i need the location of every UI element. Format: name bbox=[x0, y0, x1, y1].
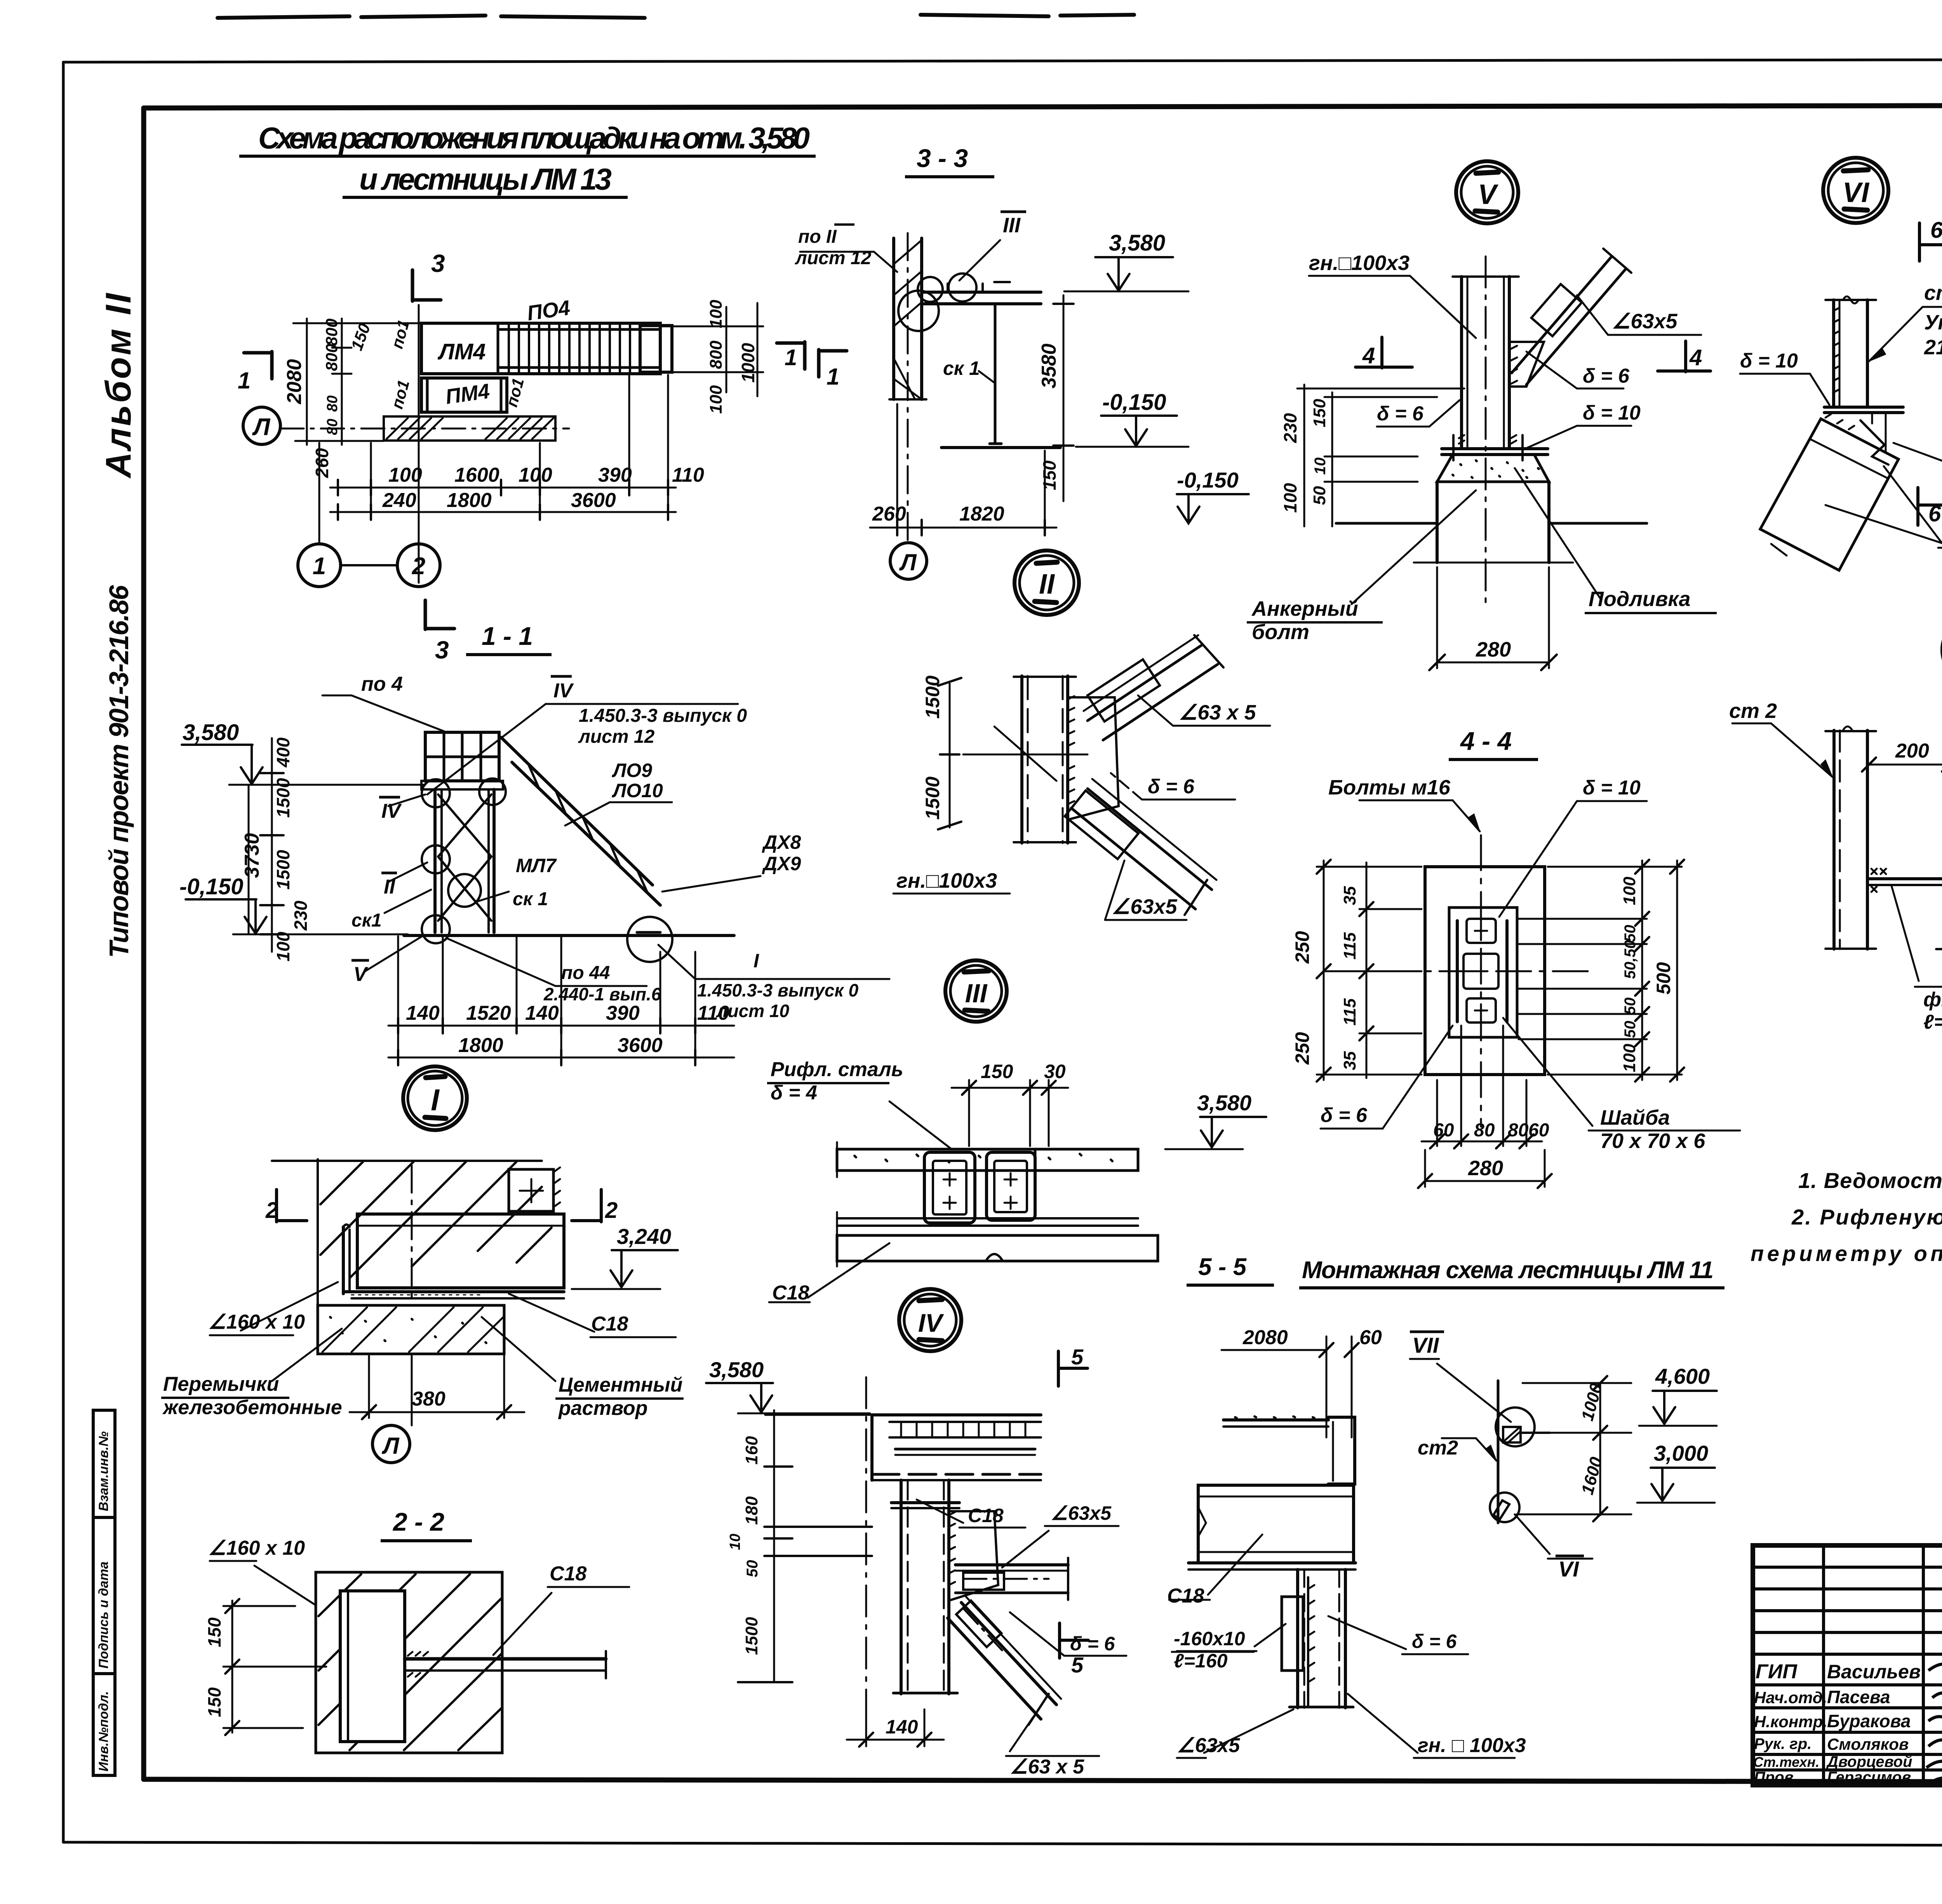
gusset IV bbox=[949, 1511, 998, 1601]
svg-text:Смоляков: Смоляков bbox=[1827, 1735, 1909, 1753]
svg-text:Шайба: Шайба bbox=[1600, 1106, 1670, 1129]
podlivka leader bbox=[1515, 468, 1600, 598]
channel boxes inside bbox=[1467, 919, 1496, 943]
svg-text:МЛ7: МЛ7 bbox=[516, 855, 557, 876]
wall 3-3 bbox=[892, 238, 895, 399]
svg-text:50,50: 50,50 bbox=[1622, 940, 1639, 979]
gusset bolt box bbox=[1531, 284, 1582, 336]
level 4,600 lm11 bbox=[1653, 1390, 1717, 1392]
svg-text:1500: 1500 bbox=[922, 777, 943, 820]
level 3,580 III bbox=[1200, 1116, 1266, 1118]
beam I (C18 side) bbox=[357, 1214, 564, 1288]
label 63x5 leader bbox=[1608, 334, 1701, 336]
svg-text:10: 10 bbox=[1312, 458, 1329, 475]
svg-text:2. Рифленую сталь приварить: 2. Рифленую сталь приварить к балкам пло… bbox=[1791, 1205, 1942, 1229]
svg-text:3,580: 3,580 bbox=[1197, 1090, 1251, 1115]
svg-text:200: 200 bbox=[1895, 740, 1929, 762]
svg-text:Дворцевой: Дворцевой bbox=[1826, 1753, 1912, 1770]
platform beam 3-3 bbox=[922, 291, 1041, 294]
svg-text:С18: С18 bbox=[1167, 1585, 1204, 1607]
platform beam 1-1 bbox=[421, 781, 503, 789]
svg-text:∠63 х 5: ∠63 х 5 bbox=[1179, 701, 1256, 724]
VI mark leader lm11 bbox=[1515, 1514, 1550, 1554]
svg-text:-160х10: -160х10 bbox=[1174, 1628, 1245, 1650]
svg-text:6: 6 bbox=[1930, 218, 1942, 243]
brace box IV bbox=[956, 1601, 1001, 1647]
box channels pair III bbox=[924, 1152, 975, 1223]
anchor bolt leader bbox=[1352, 490, 1476, 604]
weld marks rod bbox=[408, 1652, 428, 1677]
svg-text:ДХ8: ДХ8 bbox=[762, 831, 801, 853]
svg-text:С18: С18 bbox=[968, 1505, 1004, 1526]
section mark 6 top bbox=[1919, 223, 1942, 261]
speckle dots pedestal bbox=[1453, 460, 1539, 478]
svg-text:железобетонные: железобетонные bbox=[162, 1396, 342, 1419]
svg-text:Васильев: Васильев bbox=[1827, 1661, 1921, 1683]
svg-text:Н.контр.: Н.контр. bbox=[1754, 1712, 1827, 1731]
weld teeth on column right II bbox=[1068, 696, 1074, 804]
axis bubble L 3-3 bbox=[890, 543, 927, 579]
dim 280 V bbox=[1437, 662, 1549, 664]
bottom dim row 1-1 b bbox=[388, 1057, 734, 1059]
bolts crosses bbox=[1475, 925, 1487, 1017]
axis line column 1 bbox=[318, 443, 320, 542]
svg-text:35: 35 bbox=[1340, 1051, 1359, 1070]
inner plate 4-4 bbox=[1449, 908, 1517, 1037]
leader IV mark bbox=[388, 794, 425, 806]
delta10 leader 4-4 bbox=[1577, 800, 1647, 802]
signature rows bbox=[1753, 1653, 1942, 1656]
svg-text:115: 115 bbox=[1340, 932, 1359, 960]
svg-text:δ = 6: δ = 6 bbox=[1583, 365, 1630, 387]
bottom dim row 1-1 a bbox=[388, 1025, 734, 1027]
brace lower connect plate bbox=[1065, 791, 1138, 859]
dim 3580 vertical bbox=[1063, 295, 1065, 447]
left dim inner chain bbox=[341, 319, 343, 445]
C18 column IV bbox=[900, 1480, 903, 1694]
floor right part bbox=[1137, 1149, 1139, 1171]
rifl stal leader III bbox=[889, 1101, 952, 1149]
svg-text:4,600: 4,600 bbox=[1655, 1364, 1710, 1388]
weld teeth VI bbox=[1834, 308, 1839, 392]
detail circle I bbox=[403, 1066, 467, 1130]
svg-text:110: 110 bbox=[697, 1002, 729, 1024]
svg-text:Болты м16: Болты м16 bbox=[1328, 776, 1451, 799]
svg-text:IV: IV bbox=[381, 800, 402, 822]
leader bubble1-bubble2 bbox=[341, 564, 397, 566]
horizontal angle member IV bbox=[955, 1563, 1068, 1566]
svg-text:-0,150: -0,150 bbox=[179, 874, 243, 899]
svg-text:∠63 х 5: ∠63 х 5 bbox=[1010, 1756, 1084, 1778]
title block outer box bbox=[1753, 1545, 1942, 1785]
svg-text:ЛО9: ЛО9 bbox=[612, 760, 652, 781]
svg-text:1520: 1520 bbox=[466, 1002, 511, 1024]
extension verticals 1-1 bbox=[397, 936, 399, 1063]
section mark 4 left bbox=[1356, 337, 1412, 368]
delta6 leader 4-4 bbox=[1321, 1128, 1383, 1130]
63x5 lower leader IV bbox=[1010, 1717, 1033, 1751]
left margin small stamp column bbox=[93, 1410, 115, 1775]
svg-text:δ = 10: δ = 10 bbox=[1583, 402, 1641, 424]
svg-text:С18: С18 bbox=[550, 1563, 586, 1585]
title block grid bbox=[1753, 1545, 1942, 1785]
axis line column 2 bbox=[418, 305, 420, 583]
ground line V bbox=[1336, 522, 1437, 525]
extension verticals to dims bbox=[370, 443, 372, 517]
wall axis dashed bbox=[907, 233, 909, 542]
svg-text:С18: С18 bbox=[591, 1313, 628, 1335]
dims 2080 60 5-5 bbox=[1222, 1349, 1326, 1351]
svg-text:IV: IV bbox=[918, 1308, 944, 1337]
svg-text:Буракова: Буракова bbox=[1827, 1711, 1911, 1731]
svg-text:δ = 4: δ = 4 bbox=[771, 1082, 817, 1104]
svg-text:С18: С18 bbox=[772, 1282, 809, 1304]
III leader bbox=[959, 240, 1000, 280]
VII mark leader bbox=[1437, 1364, 1511, 1422]
leader po44 bbox=[447, 938, 555, 986]
svg-text:1: 1 bbox=[313, 553, 326, 580]
svg-text:VI: VI bbox=[1843, 177, 1870, 208]
svg-text:Л: Л bbox=[381, 1433, 400, 1459]
ext lines III bbox=[836, 1142, 838, 1177]
centerline X bbox=[963, 754, 1088, 756]
channel C on deck 5-5 bbox=[1328, 1417, 1355, 1484]
svg-text:30: 30 bbox=[1044, 1061, 1066, 1082]
signature scribbles bbox=[1926, 1664, 1942, 1786]
diagonal brace IV bbox=[961, 1603, 1056, 1705]
C18 band III bbox=[837, 1235, 1158, 1261]
svg-text:гн.□100х3: гн.□100х3 bbox=[896, 869, 997, 892]
delta6 leader II bbox=[1142, 799, 1235, 801]
leader LO9 bbox=[565, 802, 610, 826]
level 3,000 lm11 bbox=[1651, 1467, 1715, 1469]
svg-text:болт: болт bbox=[1252, 620, 1309, 644]
level -0,150 V bbox=[1177, 493, 1249, 495]
svg-text:150: 150 bbox=[1039, 460, 1060, 490]
platform outline bbox=[421, 323, 660, 374]
axis bubble 1 bbox=[298, 544, 341, 587]
left dims 4-4 bbox=[1317, 866, 1422, 868]
svg-text:ЛМ4: ЛМ4 bbox=[437, 339, 486, 364]
horiz angle box bbox=[963, 1573, 1004, 1590]
svg-text:1500: 1500 bbox=[742, 1617, 761, 1655]
left floor band III bbox=[837, 1149, 1138, 1171]
channel section small I bbox=[509, 1169, 553, 1211]
svg-text:390: 390 bbox=[606, 1002, 640, 1024]
svg-text:3,580: 3,580 bbox=[1109, 230, 1165, 256]
level 3,240 bbox=[612, 1249, 678, 1251]
svg-text:Подпись и дата: Подпись и дата bbox=[96, 1561, 111, 1669]
dim 200 VII bbox=[1869, 764, 1942, 766]
dims 1500 II bbox=[949, 684, 951, 827]
svg-text:60: 60 bbox=[1528, 1120, 1549, 1141]
svg-text:δ = 6: δ = 6 bbox=[1148, 775, 1195, 798]
level line 3,580 bbox=[229, 784, 425, 786]
svg-text:400: 400 bbox=[273, 737, 293, 768]
beam rect 5-5 bbox=[1198, 1485, 1354, 1563]
section mark 1 left bbox=[244, 352, 272, 379]
svg-text:III: III bbox=[965, 979, 988, 1008]
svg-text:δ = 6: δ = 6 bbox=[1321, 1104, 1368, 1127]
bottom dims 4-4 bbox=[1436, 1080, 1438, 1146]
svg-text:80: 80 bbox=[1474, 1120, 1495, 1141]
svg-text:раствор: раствор bbox=[558, 1397, 647, 1420]
beam bottom flange bbox=[343, 1290, 564, 1293]
label gn100x3 leader bbox=[1309, 275, 1410, 277]
leader sk1 left bbox=[385, 890, 431, 913]
bottom dim row 2 bbox=[330, 511, 676, 513]
svg-text:800: 800 bbox=[322, 344, 341, 371]
svg-text:-0,150: -0,150 bbox=[1102, 390, 1166, 415]
svg-text:-0,150: -0,150 bbox=[1177, 468, 1239, 492]
svg-text:∠63х5: ∠63х5 bbox=[1177, 1734, 1240, 1757]
svg-text:150: 150 bbox=[204, 1687, 224, 1717]
wall hatch 3-3 bbox=[894, 240, 922, 399]
svg-text:VI: VI bbox=[1558, 1557, 1579, 1581]
C18 label leader IV bbox=[917, 1500, 963, 1523]
svg-text:70 х 70 х 6: 70 х 70 х 6 bbox=[1600, 1129, 1705, 1153]
svg-text:ЛО10: ЛО10 bbox=[612, 780, 663, 801]
left dim extension lines bbox=[293, 322, 421, 324]
brick wall hatched I bbox=[317, 1159, 319, 1352]
svg-text:2.440-1 вып.6: 2.440-1 вып.6 bbox=[543, 984, 661, 1004]
svg-text:1500: 1500 bbox=[922, 676, 943, 719]
delta10 left leader VI bbox=[1740, 373, 1810, 375]
svg-text:Рук. гр.: Рук. гр. bbox=[1754, 1735, 1811, 1752]
leaders 2-2 bbox=[254, 1566, 315, 1604]
svg-text:140: 140 bbox=[525, 1002, 559, 1024]
svg-text:35: 35 bbox=[1340, 886, 1359, 905]
svg-text:Нач.отд.: Нач.отд. bbox=[1754, 1688, 1827, 1707]
pedestal speckled bbox=[1437, 455, 1549, 482]
svg-text:ск 1: ск 1 bbox=[943, 357, 980, 379]
svg-text:260: 260 bbox=[312, 448, 332, 478]
svg-text:2: 2 bbox=[412, 553, 425, 580]
column V bbox=[1460, 277, 1463, 449]
leader II mark bbox=[388, 862, 427, 882]
platform deck IV bbox=[872, 1413, 1041, 1416]
svg-text:∠160 х 10: ∠160 х 10 bbox=[208, 1311, 305, 1333]
section mark 4 right bbox=[1658, 341, 1711, 372]
embedded incline part VI bbox=[1760, 419, 1898, 570]
svg-text:1500: 1500 bbox=[273, 778, 293, 818]
section mark 3 top bbox=[412, 270, 441, 301]
side bars bbox=[1456, 921, 1459, 1022]
platform slab 1-1 bbox=[425, 732, 499, 781]
svg-text:I: I bbox=[753, 950, 759, 972]
svg-text:1800: 1800 bbox=[447, 489, 492, 512]
svg-text:100: 100 bbox=[519, 464, 552, 486]
svg-text:150: 150 bbox=[1310, 399, 1329, 427]
svg-text:3: 3 bbox=[431, 249, 445, 277]
svg-text:2 - 2: 2 - 2 bbox=[392, 1507, 444, 1536]
svg-text:110: 110 bbox=[672, 464, 704, 486]
delta6 left leader bbox=[1377, 426, 1429, 428]
svg-text:3580: 3580 bbox=[1038, 343, 1060, 388]
svg-text:ст 2: ст 2 bbox=[1729, 699, 1777, 723]
svg-text:140: 140 bbox=[886, 1716, 918, 1738]
stair tread rails bbox=[499, 328, 660, 331]
svg-text:1: 1 bbox=[827, 364, 839, 390]
svg-text:Монтажная схема лестницы ЛМ 11: Монтажная схема лестницы ЛМ 11 bbox=[1302, 1257, 1714, 1284]
f18 leader VII bbox=[1892, 886, 1919, 981]
svg-text:2: 2 bbox=[265, 1198, 278, 1223]
svg-text:1: 1 bbox=[238, 368, 251, 394]
svg-text:2080: 2080 bbox=[283, 359, 306, 404]
svg-text:100: 100 bbox=[388, 464, 422, 486]
left dim vertical 3730 bbox=[248, 785, 250, 934]
svg-text:ф18 АI: ф18 АI bbox=[1923, 988, 1942, 1011]
svg-text:800: 800 bbox=[706, 340, 726, 369]
svg-text:140: 140 bbox=[406, 1002, 440, 1024]
svg-text:δ = 6: δ = 6 bbox=[1412, 1631, 1457, 1652]
svg-text:180: 180 bbox=[742, 1496, 761, 1525]
torn paper marks top edge bbox=[218, 15, 1134, 18]
delta6 leader IV bbox=[1064, 1655, 1126, 1657]
svg-text:по 44: по 44 bbox=[561, 963, 610, 983]
rod from wall to block bbox=[1869, 877, 1942, 880]
svg-text:Типовой проект 901-3-216.86: Типовой проект 901-3-216.86 bbox=[104, 585, 134, 958]
stair foot node circle bbox=[627, 917, 672, 962]
section mark 1 right bbox=[819, 350, 847, 377]
left section verticals bbox=[1822, 1545, 1825, 1785]
C18 leader III bbox=[808, 1243, 889, 1298]
post sk1 bbox=[994, 304, 997, 444]
svg-text:Герасимов: Герасимов bbox=[1827, 1769, 1911, 1786]
delta10 leader bbox=[1577, 425, 1631, 427]
stair stringer top bbox=[501, 737, 653, 885]
leaders 5-5 bbox=[1208, 1535, 1262, 1595]
svg-text:160: 160 bbox=[742, 1436, 761, 1465]
leaders I bbox=[241, 1282, 338, 1331]
right dim extension bbox=[660, 326, 763, 327]
svg-text:∠63х5: ∠63х5 bbox=[1112, 895, 1178, 918]
inner hatch channel VI bbox=[1871, 413, 1873, 423]
svg-text:δ = 6: δ = 6 bbox=[1377, 402, 1424, 425]
svg-text:230: 230 bbox=[1280, 413, 1300, 443]
svg-text:гн. □ 100х3: гн. □ 100х3 bbox=[1418, 1734, 1526, 1757]
column axis bbox=[1485, 256, 1487, 606]
level -0,150 right bbox=[1101, 415, 1177, 417]
delta6 right leader bbox=[1577, 388, 1624, 390]
section mark 5 bottom bbox=[1060, 1623, 1088, 1658]
left section thin rows bbox=[1753, 1566, 1942, 1569]
svg-text:V: V bbox=[353, 963, 369, 986]
platform panel divider bbox=[497, 323, 499, 374]
svg-text:100: 100 bbox=[1620, 876, 1639, 905]
svg-text:50: 50 bbox=[1310, 486, 1329, 505]
svg-text:δ = 10: δ = 10 bbox=[1740, 350, 1798, 372]
leader po4 bbox=[352, 695, 447, 732]
svg-text:4: 4 bbox=[1689, 345, 1702, 370]
zakladnye leaders VI bbox=[1884, 466, 1942, 543]
svg-text:3: 3 bbox=[435, 636, 449, 664]
leader V bbox=[365, 935, 423, 971]
node circle bottom lm11 bbox=[1490, 1493, 1519, 1522]
svg-text:Л: Л bbox=[252, 414, 271, 441]
column II bbox=[1020, 676, 1023, 843]
svg-text:∠160 х 10: ∠160 х 10 bbox=[208, 1537, 305, 1559]
63x5 upper leader II bbox=[1173, 725, 1270, 727]
base plate VI bbox=[1824, 406, 1903, 409]
svg-text:по II: по II bbox=[798, 226, 837, 247]
63x5 lower leader II bbox=[1105, 919, 1187, 921]
svg-text:Рифл. сталь: Рифл. сталь bbox=[771, 1058, 903, 1081]
svg-text:Взам.инв.№: Взам.инв.№ bbox=[96, 1431, 111, 1511]
svg-text:1000: 1000 bbox=[738, 343, 758, 383]
X bracing bbox=[438, 794, 491, 921]
sheet title underline 2 bbox=[343, 196, 628, 199]
svg-text:260: 260 bbox=[872, 503, 906, 525]
svg-text:VII: VII bbox=[1412, 1333, 1439, 1357]
column below 5-5 bbox=[1296, 1570, 1299, 1708]
svg-text:ск1: ск1 bbox=[352, 910, 382, 931]
detail circle II bbox=[1015, 550, 1079, 615]
svg-text:Анкерный: Анкерный bbox=[1251, 597, 1358, 620]
anchor rod 2-2 bbox=[405, 1657, 606, 1661]
deck 5-5 bbox=[1223, 1418, 1328, 1421]
svg-text:250: 250 bbox=[1291, 931, 1313, 964]
svg-text:δ = 10: δ = 10 bbox=[1583, 777, 1641, 799]
svg-text:и лестницы ЛМ 13: и лестницы ЛМ 13 bbox=[359, 162, 612, 196]
wall band hatched bbox=[384, 416, 555, 441]
svg-text:1: 1 bbox=[785, 345, 797, 370]
left dims IV bbox=[773, 1410, 775, 1682]
svg-text:1. Ведомость элементов приве: 1. Ведомость элементов приведена на лист… bbox=[1798, 1168, 1942, 1193]
svg-text:80: 80 bbox=[324, 395, 341, 412]
svg-text:150: 150 bbox=[981, 1061, 1013, 1082]
axis bubble L I bbox=[372, 1425, 410, 1463]
block bottom break bbox=[1936, 948, 1942, 950]
svg-text:Перемычки: Перемычки bbox=[163, 1373, 279, 1395]
axis vertical IV bbox=[865, 1377, 867, 1740]
lower beam line III bbox=[837, 1217, 1138, 1219]
leader DX8 bbox=[662, 876, 760, 892]
svg-text:2080: 2080 bbox=[1242, 1326, 1288, 1349]
svg-text:∠63х5: ∠63х5 bbox=[1051, 1502, 1112, 1524]
section mark 5 top bbox=[1058, 1351, 1088, 1386]
brace upper II bbox=[1088, 645, 1202, 721]
svg-text:280: 280 bbox=[1468, 1157, 1503, 1180]
brace V bbox=[1512, 257, 1611, 373]
svg-text:60: 60 bbox=[1359, 1326, 1382, 1349]
detail circle IV bbox=[899, 1289, 961, 1351]
svg-text:100: 100 bbox=[1280, 483, 1300, 513]
svg-text:∠63х5: ∠63х5 bbox=[1612, 310, 1678, 333]
dims 150 30 III bbox=[968, 1080, 970, 1146]
svg-text:1820: 1820 bbox=[959, 503, 1004, 525]
svg-text:3,000: 3,000 bbox=[1654, 1441, 1708, 1465]
svg-text:230: 230 bbox=[291, 901, 311, 931]
bolts in channels bbox=[943, 1173, 1017, 1209]
svg-text:3,240: 3,240 bbox=[617, 1224, 671, 1249]
svg-text:ГИП: ГИП bbox=[1756, 1660, 1798, 1683]
stair landing end bbox=[640, 326, 672, 372]
detail circle V bbox=[1456, 161, 1518, 223]
svg-text:60: 60 bbox=[1433, 1120, 1454, 1141]
st2 leader VI bbox=[1923, 306, 1942, 308]
section mark 3 bottom bbox=[425, 600, 454, 629]
svg-text:ℓ=600: ℓ=600 bbox=[1923, 1011, 1942, 1033]
level 3,580 IV bbox=[706, 1382, 773, 1384]
section marks 2 bbox=[277, 1190, 307, 1222]
svg-text:380: 380 bbox=[412, 1388, 445, 1410]
bottom flange 5-5 bbox=[1189, 1561, 1356, 1564]
svg-text:ск 1: ск 1 bbox=[513, 889, 548, 909]
base plate V bbox=[1442, 447, 1548, 450]
gusset plate II bbox=[1068, 697, 1119, 820]
brace lower II bbox=[1088, 789, 1212, 890]
